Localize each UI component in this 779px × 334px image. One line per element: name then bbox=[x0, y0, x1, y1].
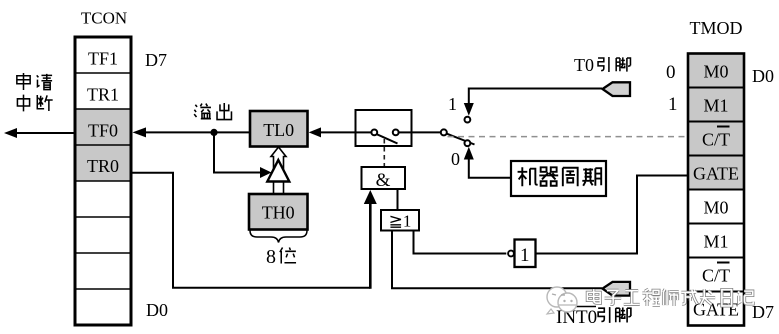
svg-text:D7: D7 bbox=[752, 302, 774, 322]
svg-text:M0: M0 bbox=[703, 198, 728, 218]
svg-text:C/T: C/T bbox=[702, 130, 730, 150]
svg-text:D0: D0 bbox=[752, 66, 774, 86]
svg-text:0: 0 bbox=[451, 149, 460, 169]
svg-text:TR0: TR0 bbox=[87, 156, 119, 176]
svg-text:TCON: TCON bbox=[81, 9, 127, 28]
svg-text:D7: D7 bbox=[145, 50, 167, 70]
svg-text:8: 8 bbox=[266, 246, 276, 268]
svg-text:0: 0 bbox=[666, 62, 676, 83]
svg-text:T0: T0 bbox=[574, 55, 594, 75]
svg-text:M0: M0 bbox=[703, 62, 728, 82]
svg-text:1: 1 bbox=[520, 245, 530, 266]
svg-text:1: 1 bbox=[448, 94, 457, 114]
svg-text:1: 1 bbox=[668, 94, 678, 115]
svg-text:TL0: TL0 bbox=[263, 120, 294, 140]
svg-text:D0: D0 bbox=[146, 300, 168, 320]
svg-text:≧1: ≧1 bbox=[389, 212, 412, 231]
svg-text:TF0: TF0 bbox=[88, 121, 118, 141]
svg-text:GATE: GATE bbox=[693, 164, 739, 184]
svg-text:M1: M1 bbox=[703, 96, 728, 116]
svg-text:TMOD: TMOD bbox=[690, 18, 743, 38]
svg-text:&: & bbox=[376, 170, 391, 191]
svg-text:C/T: C/T bbox=[702, 266, 730, 286]
svg-text:TR1: TR1 bbox=[87, 85, 119, 105]
svg-text:M1: M1 bbox=[703, 232, 728, 252]
svg-text:TH0: TH0 bbox=[262, 203, 295, 223]
svg-text:TF1: TF1 bbox=[88, 49, 118, 69]
